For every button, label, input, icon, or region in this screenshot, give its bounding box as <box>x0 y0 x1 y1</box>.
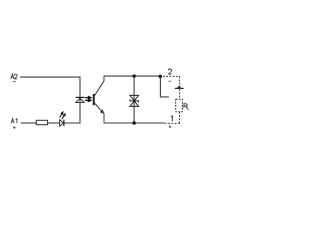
dashed external wire right vertical lower <box>179 112 181 124</box>
wire A2 horizontal <box>20 76 81 78</box>
wire output bottom bus <box>104 122 166 124</box>
terminal 1 plus polarity <box>169 126 172 129</box>
terminal 2 label <box>168 69 171 74</box>
dashed external wire right vertical upper <box>179 76 181 99</box>
TVS suppressor diode (bidirectional) <box>130 95 139 106</box>
terminal A2 label <box>11 74 17 79</box>
optocoupler light arrows <box>85 96 91 101</box>
LED D1 indicator diode <box>60 120 64 127</box>
terminal 2 minus polarity <box>169 81 171 82</box>
wire output hook from node 2 <box>160 77 169 97</box>
wire resistor to LED <box>48 122 60 124</box>
dashed external wire from node 2 <box>163 75 180 77</box>
wire LED to corner <box>64 122 80 124</box>
LED D1 emission arrows <box>60 112 66 119</box>
terminal A1 plus polarity <box>13 126 16 129</box>
phototransistor Q1 emitter with arrow <box>94 103 104 124</box>
junction dot top TVS node <box>132 74 135 77</box>
phototransistor Q1 base bar <box>93 94 95 105</box>
dashed external wire bottom to terminal 1 <box>166 122 180 124</box>
terminal 1 label <box>171 116 172 121</box>
junction dot bottom TVS node <box>132 121 135 124</box>
current direction arrow with bar <box>175 85 184 89</box>
junction dot node 2 <box>158 75 162 79</box>
phototransistor Q1 collector <box>94 76 104 96</box>
wire vertical input branch <box>79 77 81 124</box>
terminal A1 label <box>11 119 17 124</box>
resistor R (input series) <box>36 120 47 124</box>
wire A1 to resistor <box>21 122 37 124</box>
optocoupler LED (vertical) <box>76 97 85 102</box>
terminal A2 minus polarity <box>13 81 16 82</box>
label RL <box>184 104 189 110</box>
wire output top bus <box>104 75 161 77</box>
load resistor RL (dashed, external) <box>176 99 183 112</box>
wire TVS branch vertical <box>133 76 135 123</box>
